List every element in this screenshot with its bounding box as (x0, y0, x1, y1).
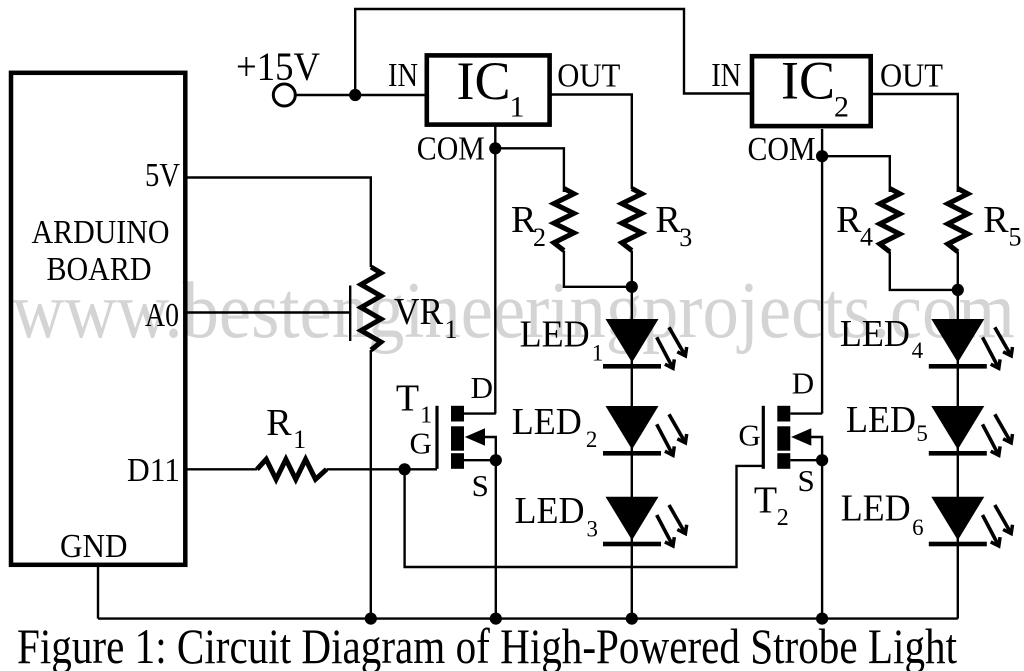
svg-text:5: 5 (916, 421, 928, 446)
svg-text:G: G (410, 425, 432, 460)
svg-text:LED: LED (520, 313, 590, 355)
svg-text:VR: VR (394, 291, 444, 333)
svg-text:LED: LED (512, 401, 582, 443)
svg-text:R: R (655, 199, 681, 241)
svg-text:LED: LED (515, 490, 585, 532)
svg-text:S: S (472, 468, 489, 503)
svg-text:S: S (798, 463, 815, 498)
svg-text:3: 3 (679, 223, 692, 252)
svg-text:T: T (754, 480, 777, 522)
svg-text:R: R (983, 199, 1009, 241)
svg-text:1: 1 (293, 425, 306, 454)
svg-text:LED: LED (841, 487, 911, 529)
svg-text:4: 4 (860, 223, 873, 252)
svg-text:1: 1 (510, 91, 525, 124)
svg-text:IC: IC (781, 51, 835, 111)
svg-text:T: T (396, 377, 419, 419)
svg-text:5: 5 (1009, 223, 1022, 252)
svg-text:6: 6 (912, 515, 924, 540)
svg-text:2: 2 (533, 223, 546, 252)
svg-text:+15V: +15V (236, 44, 320, 89)
svg-text:LED: LED (846, 399, 916, 441)
svg-text:COM: COM (417, 131, 485, 168)
svg-text:OUT: OUT (557, 58, 620, 95)
svg-text:R: R (836, 199, 862, 241)
svg-text:IN: IN (388, 57, 418, 94)
svg-text:GND: GND (60, 528, 128, 565)
svg-text:COM: COM (748, 131, 816, 168)
svg-text:ARDUINO: ARDUINO (32, 214, 170, 251)
svg-text:Figure 1: Circuit Diagram of H: Figure 1: Circuit Diagram of High-Powere… (17, 618, 957, 671)
svg-text:A0: A0 (145, 297, 179, 334)
svg-text:OUT: OUT (880, 58, 943, 95)
svg-text:G: G (738, 418, 760, 453)
svg-text:1: 1 (592, 340, 604, 365)
svg-text:LED: LED (840, 313, 910, 355)
svg-text:2: 2 (586, 427, 598, 452)
svg-text:BOARD: BOARD (47, 251, 152, 288)
svg-text:D: D (471, 370, 493, 405)
svg-text:2: 2 (834, 91, 849, 124)
svg-text:R: R (266, 402, 292, 444)
svg-text:IN: IN (711, 57, 741, 94)
svg-text:IC: IC (457, 51, 511, 111)
svg-text:2: 2 (777, 505, 789, 531)
svg-text:4: 4 (912, 338, 924, 363)
svg-text:D11: D11 (127, 452, 180, 489)
svg-text:5V: 5V (145, 157, 180, 194)
svg-text:3: 3 (587, 517, 599, 542)
svg-text:1: 1 (445, 315, 458, 344)
svg-text:D: D (792, 365, 814, 400)
